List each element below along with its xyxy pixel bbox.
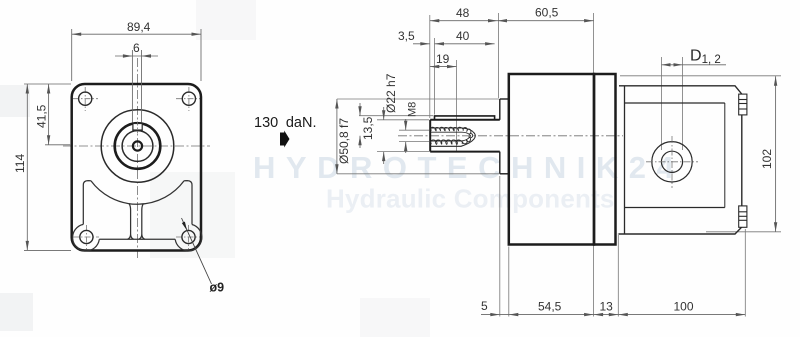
M8 tap circle xyxy=(133,141,142,150)
svg-text:48: 48 xyxy=(456,6,470,20)
svg-text:13,5: 13,5 xyxy=(361,116,375,140)
solid force arrow xyxy=(280,131,290,148)
svg-text:41,5: 41,5 xyxy=(35,104,49,128)
ext body right edge full height xyxy=(593,13,595,317)
pocket bottom line xyxy=(99,238,175,240)
ext shaft top left xyxy=(377,119,429,121)
svg-text:Ø50,8 f7: Ø50,8 f7 xyxy=(337,118,351,164)
ext bottom body front xyxy=(508,247,510,317)
pocket channel right wall xyxy=(139,204,145,240)
shaft centerline xyxy=(398,135,623,137)
dimension 102 xyxy=(775,76,777,232)
ext bottom rear body left xyxy=(617,233,619,317)
svg-text:D1, 2: D1, 2 xyxy=(690,48,721,67)
svg-text:HYDROTECHNIK24: HYDROTECHNIK24 xyxy=(253,150,684,185)
svg-text:54,5: 54,5 xyxy=(538,300,562,314)
svg-text:114: 114 xyxy=(13,154,27,173)
ext 102 bottom xyxy=(706,231,781,233)
mounting hole top-left xyxy=(79,92,92,105)
svg-text:89,4: 89,4 xyxy=(127,20,151,34)
ext bottom rear right stud xyxy=(744,229,746,317)
ext D2 right xyxy=(682,57,684,150)
centerline horizontal through boss xyxy=(63,145,210,147)
port circle inner xyxy=(661,151,682,172)
svg-text:60,5: 60,5 xyxy=(535,6,559,20)
pocket left ear arc xyxy=(73,224,100,251)
svg-text:40: 40 xyxy=(456,29,470,43)
rear body outline xyxy=(619,86,742,234)
pocket big arc xyxy=(91,181,184,204)
leader ø9 xyxy=(182,218,212,284)
dimension 40 xyxy=(435,43,495,45)
bottom dimension line xyxy=(481,314,745,316)
dimension 114 xyxy=(24,84,71,250)
background patches (scan artifacts) xyxy=(0,0,430,337)
ext flange front face up/down full xyxy=(498,13,500,98)
ext 102 top xyxy=(620,75,781,77)
ext spigot top left xyxy=(337,98,499,100)
ext bottom spigot front xyxy=(499,176,501,317)
shaft outline xyxy=(430,120,500,152)
dimension Ø50,8 f7 xyxy=(336,99,338,174)
svg-text:Ø22 h7: Ø22 h7 xyxy=(384,73,398,113)
ext shaft bottom left xyxy=(377,151,429,153)
dimension 13,5 xyxy=(359,103,361,148)
dimension 89,4 xyxy=(72,29,201,81)
rear body left face xyxy=(624,86,626,234)
shaft circle xyxy=(122,131,153,162)
main pump body xyxy=(509,74,594,245)
svg-text:ø9: ø9 xyxy=(210,281,225,295)
crosshair top-right hole xyxy=(176,87,202,111)
crosshair bottom-left hole xyxy=(73,225,99,249)
dimension 3,5 xyxy=(413,43,430,45)
svg-text:102: 102 xyxy=(760,149,774,169)
ext thread minor bottom left xyxy=(399,141,429,143)
pocket top-right corner and right edge xyxy=(184,181,192,225)
dimension 60,5 xyxy=(498,20,594,22)
mounting hole bottom-right xyxy=(182,230,195,243)
dimension Ø22 h7 xyxy=(383,107,385,164)
ext thread depth 19 xyxy=(456,60,458,152)
ext thread minor top left xyxy=(399,129,429,131)
svg-text:3,5: 3,5 xyxy=(398,29,415,43)
spigot boss Ø50.8 xyxy=(500,99,509,174)
port circle outer xyxy=(652,142,692,182)
ext key top left xyxy=(359,115,433,117)
dimension M8 xyxy=(405,119,407,153)
rear body internal vertical xyxy=(724,103,726,208)
ext key start up xyxy=(434,38,436,115)
centerline segment over keyway xyxy=(137,122,139,134)
svg-text:M8: M8 xyxy=(407,102,419,117)
svg-text:5: 5 xyxy=(481,299,488,313)
rear body internal top line xyxy=(625,102,725,104)
keyway xyxy=(133,124,142,131)
centerline vertical through boss xyxy=(137,58,139,258)
svg-text:130 daN.: 130 daN. xyxy=(254,115,316,131)
bearing hub thick circle xyxy=(115,123,161,169)
dimension 19 xyxy=(430,66,457,68)
M8 thread bore scribble xyxy=(430,127,475,146)
top stud fitting xyxy=(739,94,747,115)
svg-text:13: 13 xyxy=(600,300,614,314)
ext spigot bottom left xyxy=(337,173,499,175)
svg-text:Hydraulic Components: Hydraulic Components xyxy=(326,184,615,214)
crosshair top-left hole xyxy=(73,87,98,111)
mounting hole top-right xyxy=(182,92,195,105)
pocket left edge xyxy=(83,181,91,225)
ext shaft end face up xyxy=(429,15,431,118)
extension lines thin xyxy=(337,13,781,317)
dimension 6 (keyway width) xyxy=(115,50,158,123)
dimension 41,5 xyxy=(45,84,71,145)
boss outer circle xyxy=(101,110,174,183)
pocket channel left wall xyxy=(127,203,133,239)
arrows bottom dims xyxy=(490,313,500,316)
key on shaft xyxy=(435,116,495,120)
dimension D1,2 xyxy=(662,64,727,66)
rear body internal bottom line xyxy=(625,207,725,209)
port crosshair xyxy=(646,136,698,188)
pocket right ear arc xyxy=(175,225,202,251)
ext D1 left xyxy=(661,57,663,150)
rear cover plate (13) xyxy=(594,74,616,245)
svg-text:19: 19 xyxy=(436,52,450,66)
svg-text:6: 6 xyxy=(133,41,140,55)
mounting hole bottom-left xyxy=(80,230,93,243)
bottom stud fitting xyxy=(739,206,747,227)
flange plate outline xyxy=(72,84,201,251)
svg-text:100: 100 xyxy=(674,300,694,314)
dimension 48 xyxy=(430,20,498,22)
crosshair bottom-right hole xyxy=(176,225,202,249)
